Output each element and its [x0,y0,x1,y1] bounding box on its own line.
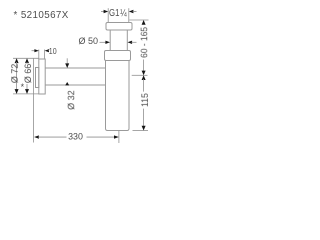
dim 60-165 bottom arrow [142,71,146,76]
dim 330 right line [87,136,116,138]
vertical pipe right wall [126,30,128,51]
dim 330 left arrow [34,135,39,138]
svg-text:G1 ¼: G1 ¼ [109,7,127,19]
dim D32 bottom arrow [65,82,69,85]
outlet pipe bottom wall [45,84,105,86]
outlet pipe top wall [45,67,105,69]
svg-text:Ø 66: Ø 66 [23,64,33,83]
dim 60-165 line [143,60,145,72]
dim D66 top arrow [25,58,29,63]
svg-text:Ø 72: Ø 72 [10,64,20,83]
dim 10 tick right [44,50,46,59]
extension line wall [33,59,35,143]
dim D66 bottom arrow [25,89,29,94]
dim 10 tick left [38,50,40,59]
dim 330 left line [38,136,66,138]
flange bottom extension line [13,93,39,95]
dim 115 top arrow [142,75,146,80]
dim 330 right arrow [114,135,119,138]
dim D50 left tail [100,41,107,43]
dim D72 top arrow [15,58,19,63]
extension line cup bottom [133,130,149,132]
thread tick right [128,8,130,22]
wall flange [39,59,45,94]
svg-text:60 - 165: 60 - 165 [139,27,149,58]
svg-text:*: * [21,82,25,92]
trap cup body [106,61,130,131]
dim 115 upper line [143,79,145,92]
dim D50 left arrow [105,41,110,44]
dim D66 lower line [26,84,28,90]
extension line cup axis [118,131,120,144]
dim G1 1/4 left tail [101,11,105,13]
nut 1 [106,23,132,31]
dim D66 upper line [26,62,28,64]
dim 60-165 top arrow [142,20,146,25]
svg-text:330: 330 [68,131,83,142]
dim 115 lower line [143,109,145,127]
thread tick left [107,8,109,22]
dim D32 top arrow [65,63,69,68]
wall-side stub [36,68,39,88]
dim 10 right tail [47,50,50,52]
dim D50 right arrow [128,41,133,44]
nut 2 [105,51,131,61]
extension line outlet axis [132,74,148,76]
vertical pipe left wall [109,30,111,51]
dim 10 left tail [32,50,36,52]
dim 10 right arrow [45,49,49,52]
dim D72 line [16,62,18,93]
dim 115 bottom arrow [142,126,146,131]
dim 10 left arrow [34,49,38,52]
svg-text:* 5210567X: * 5210567X [14,10,69,21]
dim G1 1/4 left arrow [104,10,109,13]
svg-text:115: 115 [140,93,150,107]
flange top extension line [13,57,39,59]
svg-text:Ø 32: Ø 32 [66,90,76,109]
dim G1 1/4 right tail [133,11,137,13]
dim G1 1/4 right arrow [129,10,134,13]
svg-text:Ø 50: Ø 50 [78,36,98,46]
extension line top right [129,19,148,21]
dim D32 stem [66,58,68,64]
svg-text:10: 10 [49,46,57,56]
dim D72 bottom arrow [15,89,19,94]
dim D50 right tail [132,41,137,43]
